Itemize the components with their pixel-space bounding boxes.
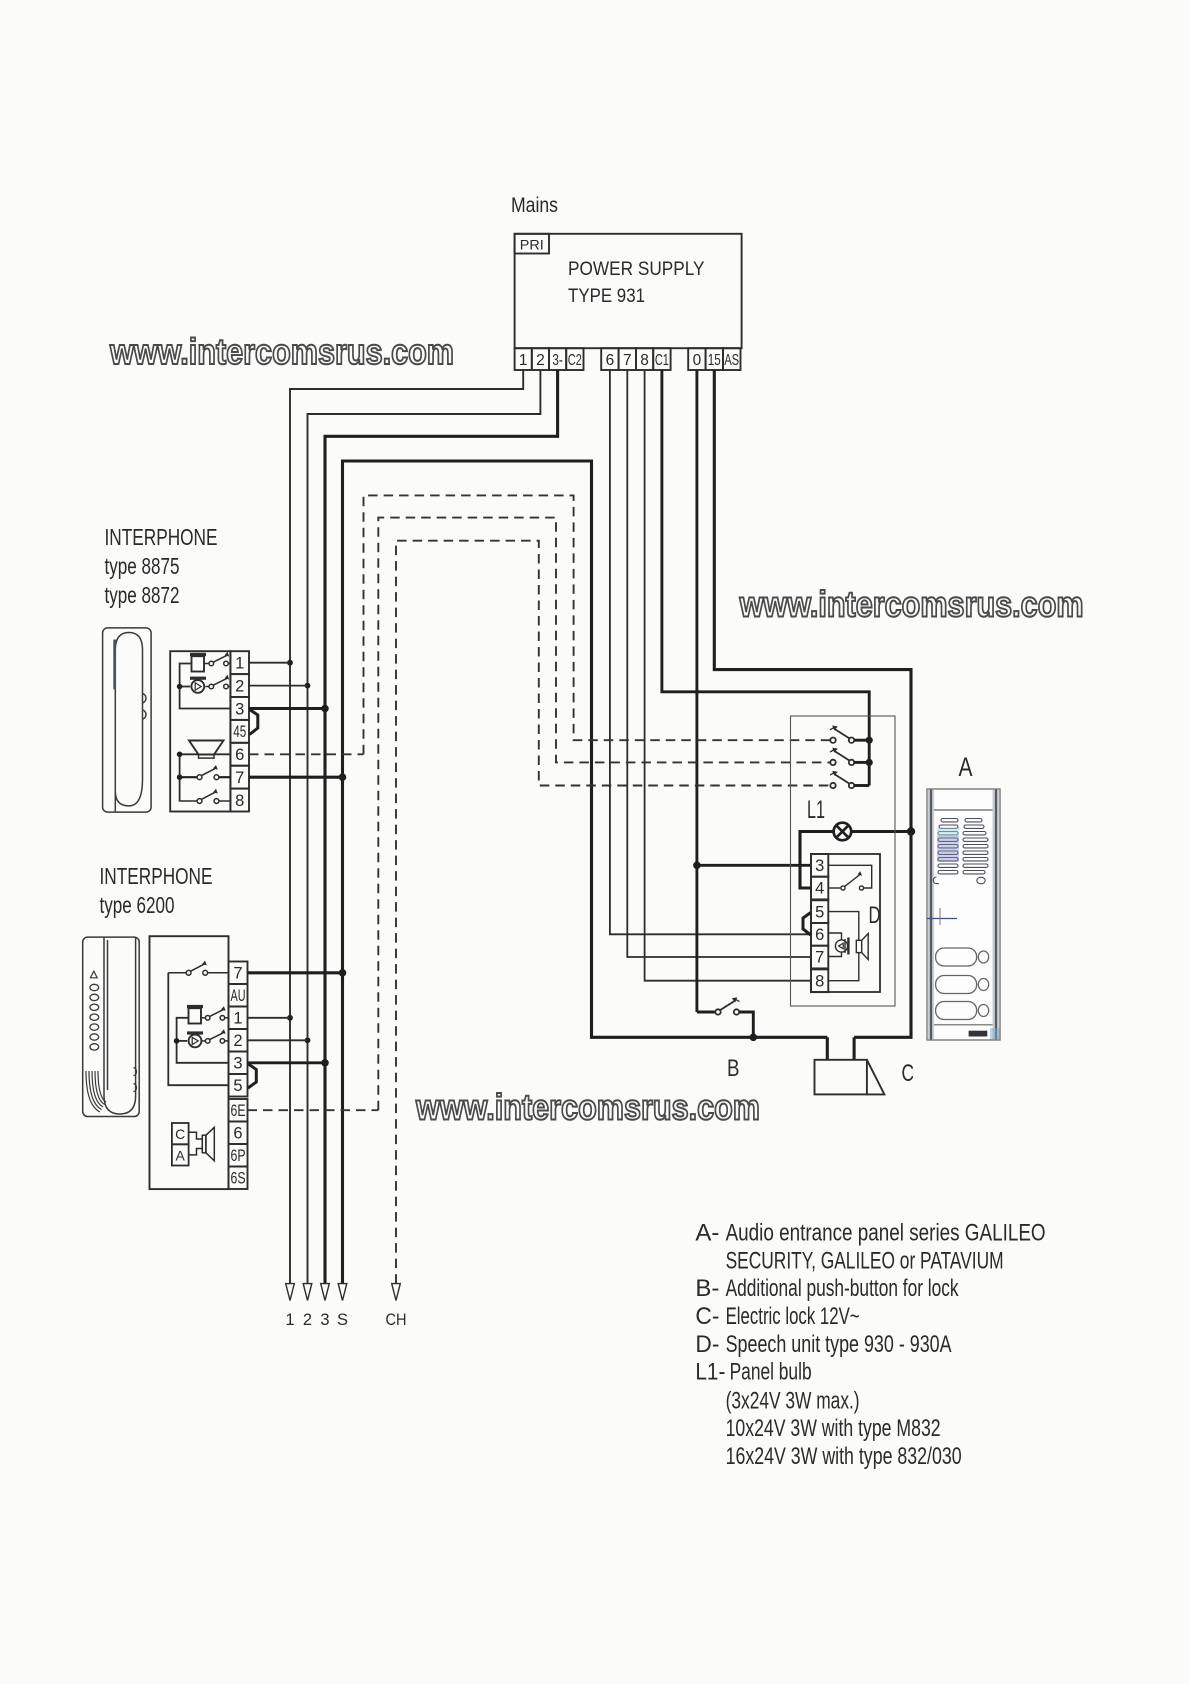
svg-text:15: 15 [708,352,721,369]
terminal 1 [229,1007,248,1030]
wire 8875 terminal 1 to riser [249,662,290,664]
speaker grille left column [938,819,958,874]
ringer option box C [172,1123,189,1144]
ringer option box A [172,1144,189,1165]
svg-text:L1-: L1- [695,1359,725,1386]
svg-text:www.intercomsrus.com: www.intercomsrus.com [739,584,1084,625]
terminal 7 [811,946,828,969]
terminal 6E [229,1099,248,1122]
svg-text:C2: C2 [568,352,582,369]
jumper bracket 3-45 [250,710,258,735]
node PS0/speech3 [693,862,701,870]
riser arrowhead 2 [303,1284,312,1301]
push button 2 [978,979,988,991]
dashed wire arch: CH riser to panel switch 3 [396,541,830,1284]
wire bus 2 : PS terminal 2 to interphones and riser arrow 2 [308,370,541,1284]
svg-text:1: 1 [285,1311,294,1329]
svg-text:7: 7 [815,949,824,967]
svg-text:CH: CH [386,1311,407,1329]
panel bottom rail line [934,1024,993,1026]
svg-text:3-: 3- [552,352,563,369]
terminal column 8875 [230,651,249,811]
terminal 3 [230,697,249,720]
wire lock left drop [826,1037,829,1060]
riser arrowhead CH [392,1284,401,1301]
handset 6200 outline [83,937,140,1116]
handset dark edge mark [113,640,116,690]
wire 8875 terminal 7 to riser S (thick) [249,776,343,779]
power supply U1 TYPE 931 [515,234,742,370]
call button switch 3 [830,771,869,789]
svg-text:2: 2 [233,1032,242,1050]
svg-text:3: 3 [320,1311,329,1329]
svg-text:AU: AU [231,987,246,1005]
handset 6200 cord lines [86,1071,106,1112]
aux switch to terminal 8 (8875) [180,792,231,803]
node riser1/8875-1 [287,660,293,666]
grille blue tint [937,836,959,862]
svg-text:45: 45 [233,723,246,741]
receiver (6200) [187,1031,203,1047]
svg-text:type 8872: type 8872 [105,582,180,608]
terminal 8 [636,348,653,370]
svg-text:C1: C1 [655,352,669,369]
handset 6200 hole column [90,984,99,1050]
node lamp/15 [907,827,915,835]
internal wire speaker to terminal 6 [180,753,231,755]
terminal 15 [706,348,723,370]
terminal 1 [515,348,532,370]
terminal 6 [230,743,249,766]
power supply terminal labels [519,352,739,369]
interphone type 6200 block [83,863,379,1189]
svg-text:16x24V 3W with type 832/030: 16x24V 3W with type 832/030 [726,1443,962,1470]
svg-text:C: C [902,1060,915,1087]
door switch to terminal 7 (8875) [180,776,231,778]
jumper bracket 5-6 (speech unit, left side) [803,913,811,936]
hook switch contact 2 (6200) [202,1033,228,1044]
svg-text:3: 3 [815,857,824,875]
svg-text:6: 6 [233,1125,242,1143]
svg-text:3: 3 [235,700,244,718]
svg-text:L1: L1 [807,796,825,824]
speech unit terminal column [811,854,828,992]
terminal 0 [688,348,705,370]
internal wire switch7 common to terminal 5 [168,973,228,1085]
svg-text:5: 5 [233,1077,242,1095]
entrance panel unit outline box [791,716,896,1006]
buzzer (8875) [190,653,206,672]
svg-text:A: A [959,752,973,782]
wire 6200 terminal 2 to riser [248,1039,308,1041]
terminal 7 [230,766,249,789]
terminal 7 [619,348,636,370]
svg-text:6S: 6S [231,1170,246,1188]
terminal 6P [229,1144,248,1167]
svg-text:6: 6 [815,926,824,944]
svg-text:Mains: Mains [511,194,558,217]
panel body [927,789,1000,1040]
node speaker common [177,752,183,758]
junction dots on risers [287,660,915,1067]
terminal 3 [811,854,828,877]
wire bus S : interphone terminal 7 riser to lock line (thick) [343,461,828,1284]
svg-text:6E: 6E [231,1102,246,1120]
door switch to terminal 7 (6200) [168,964,228,975]
svg-text:1: 1 [519,352,528,369]
wire lamp L1 right leg (thick) [851,830,911,833]
hook switch contact 1 (8875) [204,655,230,666]
svg-text:INTERPHONE: INTERPHONE [105,524,218,550]
terminal C2 [566,348,583,370]
svg-text:Speech unit type 930 - 930A: Speech unit type 930 - 930A [726,1331,952,1358]
node switch2 common [866,759,873,766]
handset 6200 triangle mark [90,971,97,978]
svg-text:TYPE 931: TYPE 931 [568,285,645,307]
maker logo [969,1031,988,1037]
node switch1 common [866,737,873,744]
hook switch contact 2 (8875) [205,678,230,689]
name plate 3 [936,1002,977,1020]
internal left vertical (speaker/7/8 common) [179,754,181,801]
terminal 8 [230,789,249,812]
wire PS 15 to panel lamp and lock (thick) [714,370,911,1037]
name plate 1 [936,948,977,966]
loudspeaker (speech unit) [856,934,868,960]
panel mid tick [927,918,958,920]
call button switch 1 [830,725,869,743]
svg-text:B-: B- [695,1275,719,1302]
svg-text:S: S [337,1311,348,1329]
node riserS/8875-7 [339,773,347,781]
internal wire buzzer/receiver common to terminal 3 (6200) [177,1018,229,1063]
panel right frame band [993,790,1000,1040]
terminal 6 [601,348,618,370]
riser arrowhead S [338,1284,347,1301]
svg-text:8: 8 [640,352,649,369]
grille end marks [933,877,939,884]
entrance panel A drawing [927,752,1001,1040]
terminal 6 [229,1122,248,1145]
svg-text:7: 7 [235,769,244,787]
svg-text:AS: AS [724,352,739,369]
terminal 6 [811,923,828,946]
ringer loudspeaker (6200) [189,1127,215,1160]
panel left frame band [928,790,935,1040]
wire bus 3 : PS terminal 3- to interphones and riser arrow 3 (thick) [325,370,558,1284]
name plate 2 [936,976,977,994]
node riser3/6200-3 [321,1059,329,1067]
speaker grille right column [963,819,988,874]
svg-text:B: B [727,1055,740,1082]
node receiver common [177,684,183,690]
terminal 2 [229,1029,248,1052]
dashed wire 6200 terminal 6E [248,1109,379,1111]
internal wire buzzer/receiver common to terminal 3 [180,664,231,709]
terminal 1 [230,651,249,674]
svg-text:5: 5 [815,903,824,921]
buzzer (6200) [187,1005,203,1024]
node riser3/8875-3 [321,705,329,713]
svg-text:type 6200: type 6200 [100,892,175,918]
interphone type 8875/8872 block [103,524,364,812]
microphone loop 5-8 in speech unit [828,912,859,981]
svg-text:Electric lock 12V~: Electric lock 12V~ [726,1303,860,1330]
hook switch contact 1 (6200) [201,1010,229,1021]
wire bus 1 : PS terminal 1 to interphones and riser arrow 1 [290,370,523,1284]
wire PS 6 to speech unit terminal 6 [610,370,811,934]
node B/lock line [750,1034,758,1042]
terminal AS [723,348,741,370]
svg-text:6: 6 [606,352,615,369]
svg-text:2: 2 [536,352,545,369]
terminal 2 [532,348,549,370]
node riser2/8875-2 [305,683,311,689]
svg-text:6P: 6P [231,1147,246,1165]
terminal AU [229,984,248,1007]
wire 6200 terminal 1 to riser [248,1017,291,1019]
node riser2/6200-2 [305,1037,311,1043]
wire 6200 terminal 7 to riser S (thick) [248,971,343,974]
wire lock right drop [853,1037,856,1060]
lamp L1 [834,823,852,841]
terminal 5 [811,900,828,923]
svg-text:www.intercomsrus.com: www.intercomsrus.com [415,1087,760,1128]
wire lamp L1 left leg to speech unit terminal 4 (thick) [800,832,834,889]
terminal 4 [811,877,828,900]
node riser1/6200-1 [287,1015,293,1021]
interphone 6200 component box [150,936,229,1189]
push button 1 [978,951,988,963]
svg-text:7: 7 [233,965,242,983]
node switch7 common [177,774,183,780]
wire PS 0 down to push-button B, with branch to speech unit terminal 3 [695,370,698,1012]
electric lock C [815,1060,885,1095]
svg-text:A-: A- [695,1220,719,1247]
call button switch 2 [830,748,869,766]
panel top rail line [934,809,993,811]
handset 6200 hook bumps [134,1068,137,1092]
terminal 2 [230,674,249,697]
jumper bracket 3-5 (6200) [248,1064,256,1088]
lock release switch 3-4 in speech unit [828,865,871,890]
svg-text:D-: D- [695,1331,719,1358]
node receiver common (6200) [174,1038,180,1044]
svg-text:0: 0 [693,352,702,369]
svg-text:8: 8 [815,972,824,990]
legend text block [695,1220,1045,1470]
terminal 6S [229,1167,248,1190]
svg-text:A: A [176,1148,186,1164]
svg-text:1: 1 [233,1010,242,1028]
svg-text:10x24V 3W with type M832: 10x24V 3W with type M832 [726,1415,941,1442]
terminal column 6200 [229,962,248,1190]
svg-text:Additional push-button for loc: Additional push-button for lock [726,1275,960,1302]
dashed wire 8875 terminal 6 [249,753,364,755]
receiver (8875) [190,677,206,693]
push-button B [697,997,753,1037]
svg-text:www.intercomsrus.com: www.intercomsrus.com [109,331,454,372]
interphone 8875 component box [170,651,230,811]
handset hook bumps [143,694,146,704]
svg-text:3: 3 [233,1055,242,1073]
svg-text:D: D [869,902,881,929]
svg-text:4: 4 [815,880,824,898]
svg-text:type 8875: type 8875 [105,553,180,579]
dashed wire arch: interphone 6200 terminal 6E to panel switch 2 [378,518,830,1111]
wire speech unit terminal 3 branch (thick) [697,864,811,867]
dashed wire arch: interphone 8875 terminal 6 to panel switch 1 [364,495,831,754]
svg-text:Panel bulb: Panel bulb [730,1359,812,1386]
speech unit D box [811,854,880,992]
terminal 3 [229,1052,248,1075]
node riserS/6200-7 [339,969,347,977]
svg-text:C-: C- [695,1303,719,1330]
svg-text:8: 8 [235,792,244,810]
svg-text:SECURITY, GALILEO or PATAVIUM: SECURITY, GALILEO or PATAVIUM [726,1247,1004,1274]
svg-text:PRI: PRI [520,237,544,253]
microphone (speech unit) [828,933,847,957]
svg-text:2: 2 [303,1311,312,1329]
wire PS 8 to speech unit terminal 8 [645,370,811,981]
svg-text:INTERPHONE: INTERPHONE [100,863,213,889]
riser arrowhead 3 [321,1284,330,1301]
wire PS 7 to speech unit terminal 7 [627,370,811,957]
riser arrowhead 1 [286,1284,295,1301]
svg-text:7: 7 [623,352,632,369]
terminal 45 [230,720,249,743]
wire 6200 terminal 3 to riser (thick) [248,1061,326,1064]
terminal 3- [549,348,566,370]
svg-text:POWER SUPPLY: POWER SUPPLY [568,258,705,280]
svg-text:6: 6 [235,746,244,764]
terminal 8 [811,969,828,992]
terminal C1 [653,348,670,370]
terminal 5 [229,1074,248,1097]
svg-text:(3x24V 3W max.): (3x24V 3W max.) [726,1387,860,1414]
svg-text:C: C [175,1126,185,1142]
push button 3 [978,1005,988,1017]
PRI box [515,234,549,254]
svg-text:Audio entrance panel series GA: Audio entrance panel series GALILEO [726,1220,1046,1247]
wire 8875 terminal 2 to riser [249,685,308,687]
wire PS C1 to call button common (thick) [662,370,869,786]
loudspeaker (8875) [189,741,224,755]
power supply main box [515,234,742,348]
wire 8875 terminal 3 to riser (thick) [249,707,325,710]
terminal 7 [229,962,248,985]
svg-text:1: 1 [235,655,244,673]
svg-text:2: 2 [235,677,244,695]
handset 8875 outline [103,628,152,812]
